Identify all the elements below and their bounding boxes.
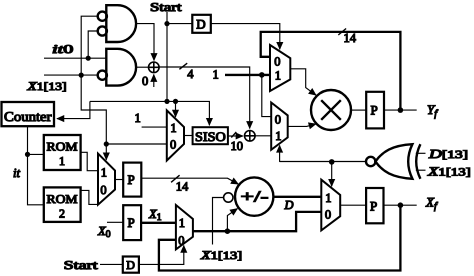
wire counter output it — [28, 126, 44, 205]
wire X0 input — [107, 221, 123, 223]
svg-text:0: 0 — [170, 137, 176, 151]
wire Start to D box — [167, 23, 192, 25]
Counter box — [2, 102, 55, 126]
junction Yf — [398, 107, 404, 113]
wire X1[13] — [44, 74, 97, 76]
svg-text:X0: X0 — [97, 224, 111, 240]
svg-text:2: 2 — [59, 207, 65, 221]
wire X1 into adder lower — [227, 209, 237, 232]
wire Yf feedback 14 (thick) — [261, 32, 401, 110]
wire N1 output bus to N2 — [159, 67, 250, 128]
wire X1[13] down to mux C input 0 and mux D select — [81, 75, 167, 144]
SISO box — [193, 127, 228, 144]
wire ROM2 to mux D — [81, 190, 98, 204]
svg-text:X1[13]: X1[13] — [427, 165, 471, 179]
wire 1 const to mux C — [142, 126, 167, 128]
svg-text:SISO: SISO — [195, 129, 226, 144]
wire mux F select from xnor — [331, 162, 333, 186]
mux D (ROM mux) — [98, 154, 115, 205]
svg-text:1: 1 — [59, 154, 65, 168]
wire start to counter — [57, 101, 90, 118]
XNOR gate (mirrored) — [366, 144, 420, 179]
svg-text:0: 0 — [325, 208, 331, 222]
ROM 2 box — [44, 187, 81, 222]
P register W — [123, 163, 141, 197]
svg-text:ROM: ROM — [47, 192, 78, 206]
svg-text:1: 1 — [170, 121, 176, 135]
svg-text:D: D — [284, 198, 294, 212]
svg-text:X1: X1 — [148, 207, 162, 223]
wire X1[13] to G1 top input — [81, 16, 97, 75]
wire N2 output to mux B input 1 — [255, 135, 271, 137]
svg-text:Start: Start — [150, 0, 182, 14]
wire 0 const into N1 — [153, 75, 155, 87]
junction it — [25, 152, 30, 157]
junction X1[13] — [79, 73, 84, 78]
wire start to D bottom — [100, 263, 123, 265]
wire xnor input D13 — [416, 152, 426, 154]
mux F (Xf mux) — [321, 180, 340, 231]
P register Xf — [366, 188, 383, 223]
junction xnor — [329, 159, 335, 165]
wire it0 — [44, 57, 106, 59]
svg-text:ROM: ROM — [47, 140, 78, 154]
sign bubble — [224, 193, 233, 202]
svg-text:Start: Start — [64, 258, 99, 272]
svg-text:0: 0 — [142, 74, 148, 88]
wire mux F output — [340, 204, 366, 206]
wire 1 const to mux A input 1 (thick) — [225, 74, 270, 76]
wire SISO output to N2 — [228, 135, 243, 137]
wire multiplier to P Yf — [351, 109, 366, 111]
gate G2 AND (lower input inverted) — [98, 49, 136, 86]
wire Xf output — [384, 204, 417, 206]
wire it0 to G1 lower input — [88, 31, 97, 58]
wire G1 output to xor node — [136, 24, 154, 61]
svg-text:P: P — [371, 103, 378, 118]
svg-text:X1[13]: X1[13] — [200, 248, 242, 262]
junction start/muxCsel — [173, 99, 178, 104]
wire mux D output — [115, 179, 123, 181]
svg-text:+/-: +/- — [241, 189, 269, 206]
wire adder output D (thick) — [273, 196, 321, 198]
svg-text:Xf: Xf — [425, 195, 438, 213]
adder/subtractor +/- — [235, 177, 273, 215]
wire mux D select arrow — [105, 144, 107, 160]
svg-text:D[13]: D[13] — [428, 147, 468, 161]
multiplier U1 — [311, 90, 351, 130]
svg-text:1: 1 — [101, 166, 107, 180]
wire mux B select from xnor net — [279, 145, 281, 162]
svg-text:14: 14 — [344, 31, 357, 45]
svg-text:1: 1 — [275, 68, 281, 82]
junction it0 — [86, 56, 91, 61]
wire X1 to mux E (thick) — [141, 222, 176, 224]
svg-text:D: D — [196, 17, 205, 32]
wire G2 output — [136, 66, 148, 68]
bus slash 10 — [231, 132, 236, 138]
wire W 14 to adder — [141, 178, 238, 184]
svg-text:P: P — [128, 215, 135, 230]
ROM 1 box — [44, 135, 81, 170]
mux B (lower right) — [271, 103, 288, 150]
svg-text:10: 10 — [231, 139, 244, 153]
svg-text:4: 4 — [187, 67, 194, 81]
mux C (center mux) — [167, 110, 184, 160]
svg-text:14: 14 — [176, 179, 189, 193]
wire start horizontal — [90, 101, 209, 125]
svg-text:P: P — [128, 172, 135, 187]
svg-text:Yf: Yf — [427, 102, 438, 120]
gate G1 NAND (2 inverted inputs) — [98, 5, 136, 42]
D flip-flop bottom — [123, 257, 139, 273]
svg-text:it: it — [13, 166, 20, 180]
svg-text:1: 1 — [179, 216, 185, 230]
junction start/vert — [164, 99, 169, 104]
wire mux C output to SISO — [184, 135, 193, 137]
svg-text:D: D — [126, 258, 135, 272]
mux A (top right) — [270, 45, 290, 91]
wire ROM1 to mux D — [81, 152, 98, 170]
wire xnor input X113 — [416, 169, 426, 171]
wire mux B output to multiplier — [288, 124, 316, 127]
svg-text:it0: it0 — [52, 42, 73, 56]
bus slash 4 — [179, 63, 187, 69]
wire D bottom to mux E select — [139, 246, 184, 265]
mux E (X1 mux) — [176, 205, 193, 249]
wire D output to mux A select — [211, 24, 280, 50]
wire Xf feedback (thick) — [159, 205, 401, 270]
P register X1 — [123, 205, 141, 240]
P register Yf — [366, 92, 384, 129]
svg-text:Counter: Counter — [4, 109, 52, 124]
svg-text:0: 0 — [274, 54, 280, 68]
wire it to ROM1 — [28, 153, 44, 155]
wire down to mux B input 0 — [262, 75, 271, 117]
D flip-flop top — [192, 15, 211, 33]
junction Xf — [398, 202, 404, 208]
junction 1/feedback — [259, 72, 265, 78]
wire xnor output — [280, 161, 366, 163]
svg-text:0: 0 — [100, 183, 106, 197]
wire Start vertical — [166, 12, 168, 101]
svg-text:0: 0 — [178, 234, 184, 248]
bus slash 14 low — [171, 175, 180, 182]
XOR node N2 (circled plus) — [245, 131, 256, 142]
svg-text:P: P — [370, 198, 377, 213]
wire mux C select arrow — [175, 101, 177, 117]
wire mux E output to adder and mux F 0 (thick) — [193, 212, 321, 231]
svg-text:0: 0 — [275, 112, 281, 126]
svg-text:1: 1 — [325, 191, 331, 205]
wire X1[13] sign stub — [213, 198, 224, 245]
junction Start/D — [164, 21, 169, 26]
svg-text:1: 1 — [135, 111, 141, 125]
svg-text:1: 1 — [275, 129, 281, 143]
XOR node N1 (circled plus) — [149, 62, 160, 73]
junction X1 line — [225, 228, 231, 234]
wire mux A output to multiplier — [290, 69, 316, 95]
bus slash 14 top — [338, 29, 346, 36]
svg-text:1: 1 — [213, 68, 219, 82]
svg-text:X1[13]: X1[13] — [26, 79, 66, 93]
junction node sel — [104, 141, 109, 146]
wire Yf output — [384, 109, 417, 111]
